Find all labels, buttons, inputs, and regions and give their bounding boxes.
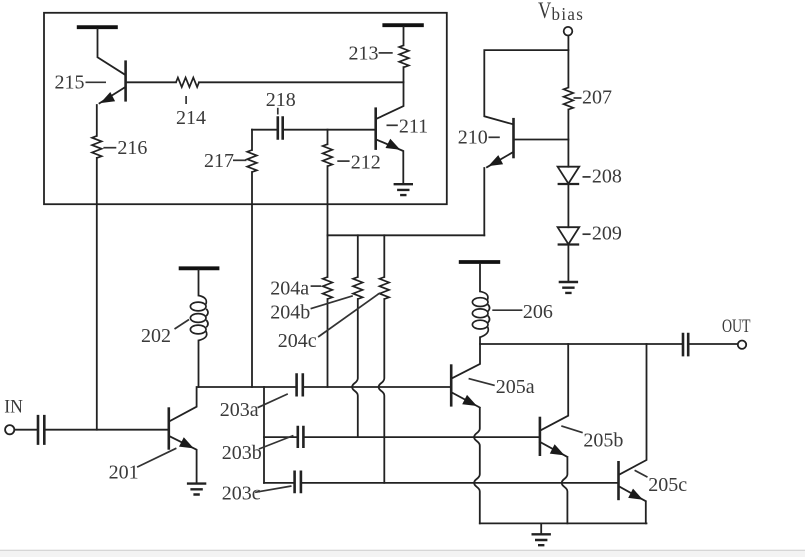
svg-text:203a: 203a — [220, 399, 259, 421]
svg-text:206: 206 — [523, 301, 553, 323]
svg-text:V: V — [538, 0, 551, 24]
svg-text:211: 211 — [399, 116, 428, 138]
svg-text:bias: bias — [552, 5, 585, 24]
svg-text:205b: 205b — [583, 430, 623, 452]
svg-text:216: 216 — [117, 137, 147, 159]
svg-text:217: 217 — [204, 150, 234, 172]
svg-text:204c: 204c — [278, 330, 317, 352]
svg-text:208: 208 — [592, 165, 622, 187]
svg-text:202: 202 — [141, 325, 171, 347]
svg-text:212: 212 — [351, 152, 381, 174]
svg-text:204a: 204a — [270, 278, 309, 300]
svg-text:205c: 205c — [648, 474, 687, 496]
svg-text:215: 215 — [55, 72, 85, 94]
svg-text:203b: 203b — [222, 442, 262, 464]
svg-text:207: 207 — [582, 86, 612, 108]
svg-text:203c: 203c — [222, 483, 261, 505]
svg-text:IN: IN — [4, 396, 23, 417]
svg-text:218: 218 — [266, 89, 296, 111]
svg-text:210: 210 — [458, 127, 488, 149]
svg-text:213: 213 — [349, 43, 379, 65]
svg-text:209: 209 — [592, 223, 622, 245]
svg-text:214: 214 — [176, 107, 206, 129]
svg-text:205a: 205a — [496, 376, 535, 398]
svg-text:OUT: OUT — [722, 315, 750, 337]
svg-text:204b: 204b — [270, 302, 310, 324]
svg-text:201: 201 — [109, 462, 139, 484]
